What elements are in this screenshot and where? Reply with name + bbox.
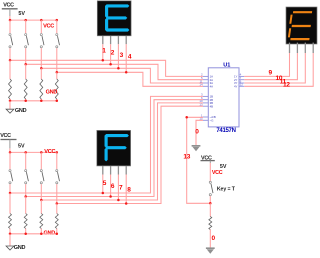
wire display U3 pin 2 to bus net 6 bbox=[110, 175, 112, 197]
svg-text:74157N: 74157N bbox=[216, 128, 235, 134]
display U2 pins bbox=[103, 36, 126, 44]
svg-text:8: 8 bbox=[127, 187, 131, 194]
junction dot display U3 pin 3 bbox=[117, 199, 120, 202]
svg-text:VCC: VCC bbox=[212, 170, 223, 176]
svg-text:GND: GND bbox=[15, 108, 27, 114]
U1 pin 7 (2Y) bbox=[234, 76, 244, 82]
junction dot switch J4 to bus net 4 bbox=[56, 71, 59, 74]
svg-text:13: 13 bbox=[183, 153, 190, 160]
junction dot switch J5 to bus net 5 bbox=[9, 192, 12, 195]
resistor R1 (bank 1 pulldown) bbox=[9, 79, 12, 101]
label GND (red, bank 2) bbox=[44, 230, 56, 236]
wire display U3 pin 3 to bus net 7 bbox=[117, 175, 119, 201]
label GND (red, bank 1) bbox=[46, 90, 58, 96]
net number 1 bbox=[102, 48, 106, 55]
U1 pin 12 (4Y) bbox=[234, 83, 244, 89]
U1 pin 5 (2A) bbox=[201, 76, 213, 82]
svg-text:GND: GND bbox=[14, 245, 26, 251]
junction dot display U2 pin 4 bbox=[125, 71, 128, 74]
switch J2 (bank 1) bbox=[25, 20, 29, 64]
label VCC (red, bank 2) bbox=[44, 149, 55, 155]
ground symbol bank 2 bbox=[6, 246, 14, 250]
net number 0 (near U1 ~G) bbox=[195, 129, 199, 136]
seven-segment display U2 (blue E) bbox=[97, 1, 131, 36]
switch J1 (bank 1) bbox=[9, 20, 13, 60]
junction dot switch J2 to bus net 2 bbox=[24, 63, 27, 66]
junction dot display U2 pin 1 bbox=[102, 59, 105, 62]
wire display U2 pin 3 to bus net 3 bbox=[117, 44, 119, 68]
svg-text:0: 0 bbox=[212, 235, 216, 242]
wire output net 12 (U1 4Y to display U4 pin 4) bbox=[244, 53, 313, 86]
svg-text:GND: GND bbox=[46, 90, 58, 96]
svg-text:5: 5 bbox=[103, 180, 107, 187]
wire VCC rail bank 2 bbox=[10, 148, 57, 152]
switch J8 (bank 2) bbox=[56, 152, 60, 203]
resistor R3 (bank 1 pulldown) bbox=[40, 79, 43, 101]
junction dot display U3 pin 2 bbox=[109, 195, 112, 198]
wire display U3 pin 4 to bus net 8 bbox=[125, 175, 127, 204]
junction dot switch J9 to resistor bbox=[209, 202, 212, 205]
junction dots on VCC rail bank 2 bbox=[9, 151, 58, 154]
wire bus net 8 from switch J8 bbox=[57, 106, 203, 203]
U1 pin 9 (3Y) bbox=[234, 79, 244, 85]
switch J3 (bank 1) bbox=[40, 20, 44, 68]
resistor R7 (bank 2 pulldown) bbox=[40, 214, 43, 234]
seven-segment display U3 (blue F) bbox=[97, 130, 131, 166]
wire output net 10 (U1 2Y to display U4 pin 2) bbox=[244, 53, 297, 80]
U1 pin 2 (1A) bbox=[201, 73, 213, 79]
power symbol VCC (bank 2, 5V) bbox=[0, 133, 16, 148]
svg-text:U1: U1 bbox=[223, 62, 230, 68]
junction dots GND rail bank 1 bbox=[9, 100, 58, 103]
net number 7 bbox=[119, 185, 123, 192]
svg-text:VCC: VCC bbox=[3, 2, 14, 8]
resistor R5 (bank 2 pulldown) bbox=[9, 214, 12, 234]
wire select net 13 (switch to U1 pin 1 ~A/B) bbox=[187, 117, 211, 203]
label 5V (select) bbox=[220, 164, 227, 170]
resistor R8 (bank 2 pulldown) bbox=[55, 214, 58, 234]
U1 part number 74157N bbox=[216, 128, 235, 134]
svg-text:4B: 4B bbox=[210, 104, 214, 108]
svg-text:9: 9 bbox=[268, 70, 272, 77]
resistor R2 (bank 1 pulldown) bbox=[24, 79, 27, 101]
label 5V (bank 1) bbox=[18, 11, 25, 17]
wire display U2 pin 2 to bus net 2 bbox=[110, 44, 112, 64]
svg-text:4A: 4A bbox=[210, 85, 214, 89]
junction dot display U3 pin 1 bbox=[102, 192, 105, 195]
junction dot display U2 pin 2 bbox=[109, 63, 112, 66]
seven-segment display U4 (orange E) bbox=[286, 7, 317, 44]
switch J7 (bank 2) bbox=[40, 152, 44, 200]
resistor R4 (bank 1 pulldown) bbox=[55, 79, 58, 101]
net number 12 bbox=[283, 82, 290, 89]
resistor R9 (select pulldown) bbox=[209, 217, 212, 249]
svg-text:6: 6 bbox=[111, 183, 115, 190]
svg-text:12: 12 bbox=[240, 83, 244, 87]
svg-text:VCC: VCC bbox=[44, 149, 55, 155]
wire switch J8 down to resistor R8 bbox=[56, 204, 58, 214]
junction dot switch J7 to bus net 7 bbox=[40, 199, 43, 202]
junction dot switch J6 to bus net 6 bbox=[24, 195, 27, 198]
wire bus net 2 from switch J2 bbox=[26, 64, 203, 79]
svg-text:4Y: 4Y bbox=[234, 85, 238, 89]
junction dot switch J8 to bus net 8 bbox=[56, 202, 59, 205]
junction dots GND rail bank 2 bbox=[9, 233, 58, 236]
label VCC (red, bank 1) bbox=[43, 23, 54, 29]
wire output net 9 (U1 1Y to display U4 pin 1) bbox=[244, 53, 289, 76]
net number 6 bbox=[111, 183, 115, 190]
U1 pin 10 (3B) bbox=[199, 99, 213, 105]
wire bus net 3 from switch J3 bbox=[41, 68, 203, 83]
resistor R6 (bank 2 pulldown) bbox=[24, 214, 27, 234]
switch J5 (bank 2) bbox=[9, 152, 13, 193]
switch J9 Key = T bbox=[209, 163, 213, 203]
net number 3 bbox=[120, 52, 124, 59]
label 5V (bank 2) bbox=[18, 143, 25, 149]
label VCC (red, select) bbox=[212, 170, 223, 176]
wire switch J5 down to resistor R5 bbox=[9, 193, 11, 214]
svg-text:7: 7 bbox=[119, 185, 123, 192]
net number 10 bbox=[276, 75, 283, 82]
wire switch J3 down to resistor R3 bbox=[40, 68, 42, 79]
wire switch J9 to resistor R9 bbox=[209, 203, 211, 216]
wire bus net 7 from switch J7 bbox=[41, 103, 203, 200]
wire switch J2 down to resistor R2 bbox=[25, 64, 27, 79]
U1 pin 1 (~A/B) bbox=[201, 113, 216, 119]
U1 reference designator bbox=[223, 62, 230, 68]
svg-text:5V: 5V bbox=[18, 143, 25, 149]
multiplexer U1 74157N body bbox=[208, 68, 239, 127]
svg-text:2: 2 bbox=[111, 50, 115, 57]
U1 pin 6 (2B) bbox=[201, 96, 213, 102]
junction dot switch J3 to bus net 3 bbox=[40, 67, 43, 70]
svg-text:1: 1 bbox=[102, 48, 106, 55]
wire GND rail bank 1 bbox=[10, 100, 57, 102]
wire bus net 4 from switch J4 bbox=[57, 72, 203, 86]
U1 pin 15 (~G) bbox=[199, 117, 213, 123]
display U4 pins bbox=[290, 43, 314, 53]
svg-text:~G: ~G bbox=[210, 119, 214, 123]
U1 pin 3 (1B) bbox=[201, 93, 213, 99]
wire bus net 5 from switch J5 bbox=[10, 96, 203, 193]
power symbol VCC (select switch, 5V) bbox=[201, 155, 215, 163]
label GND (black, bank 2) bbox=[14, 245, 26, 251]
switch J6 (bank 2) bbox=[25, 152, 29, 196]
U1 pin 13 (4B) bbox=[199, 103, 213, 109]
wire display U2 pin 4 to bus net 4 bbox=[125, 44, 127, 72]
net number 11 bbox=[280, 78, 287, 85]
svg-text:VCC: VCC bbox=[43, 23, 54, 29]
U1 pin 11 (3A) bbox=[200, 79, 214, 85]
U1 pin 4 (1Y) bbox=[234, 73, 244, 79]
wire display U3 pin 1 to bus net 5 bbox=[102, 175, 104, 194]
label GND (black, bank 1) bbox=[15, 108, 27, 114]
svg-text:3: 3 bbox=[120, 52, 124, 59]
svg-text:4: 4 bbox=[128, 53, 132, 60]
junction dot display U3 pin 4 bbox=[125, 202, 128, 205]
switch J4 (bank 1) bbox=[56, 20, 60, 72]
ground symbol (U1 ~G) bbox=[192, 146, 201, 152]
junction dot display U2 pin 3 bbox=[117, 67, 120, 70]
net number 9 bbox=[268, 70, 272, 77]
wire switch J4 down to resistor R4 bbox=[56, 72, 58, 79]
svg-text:0: 0 bbox=[195, 129, 199, 136]
svg-text:Key = T: Key = T bbox=[217, 187, 236, 193]
wire switch J6 down to resistor R6 bbox=[25, 197, 27, 214]
wire switch J7 down to resistor R7 bbox=[40, 200, 42, 214]
wire to ground bank 2 bbox=[9, 234, 11, 246]
wire display U2 pin 1 to bus net 1 bbox=[102, 44, 104, 60]
net number 0 (near resistor R9) bbox=[212, 235, 216, 242]
net number 4 bbox=[128, 53, 132, 60]
wire bus net 6 from switch J6 bbox=[26, 100, 203, 197]
power symbol VCC (bank 1, 5V) bbox=[2, 2, 18, 16]
svg-text:12: 12 bbox=[283, 82, 290, 89]
net number 2 bbox=[111, 50, 115, 57]
wire switch J1 down to resistor R1 bbox=[9, 60, 11, 79]
net number 5 bbox=[103, 180, 107, 187]
wire to ground bank 1 bbox=[9, 101, 11, 109]
ground symbol (below R9) bbox=[206, 248, 215, 254]
junction dot switch J1 to bus net 1 bbox=[9, 59, 12, 62]
wire U1 pin 15 ~G to ground bbox=[196, 120, 203, 146]
U1 pin 14 (4A) bbox=[199, 83, 213, 89]
junction dots on VCC rail bank 1 bbox=[9, 19, 58, 22]
label Key = T bbox=[217, 187, 236, 193]
wire bus net 1 from switch J1 bbox=[10, 60, 203, 76]
wire output net 11 (U1 3Y to display U4 pin 3) bbox=[244, 53, 305, 83]
net number 13 bbox=[183, 153, 190, 160]
svg-text:14: 14 bbox=[199, 83, 203, 87]
svg-text:13: 13 bbox=[199, 103, 203, 107]
svg-text:VCC: VCC bbox=[0, 133, 11, 139]
display U3 pins bbox=[103, 166, 126, 175]
svg-text:5V: 5V bbox=[18, 11, 25, 17]
ground symbol bank 1 bbox=[6, 109, 14, 113]
net number 8 bbox=[127, 187, 131, 194]
junction dot select net corner bbox=[185, 116, 188, 119]
wire VCC rail bank 1 bbox=[10, 16, 57, 20]
wire GND rail bank 2 bbox=[10, 233, 57, 235]
